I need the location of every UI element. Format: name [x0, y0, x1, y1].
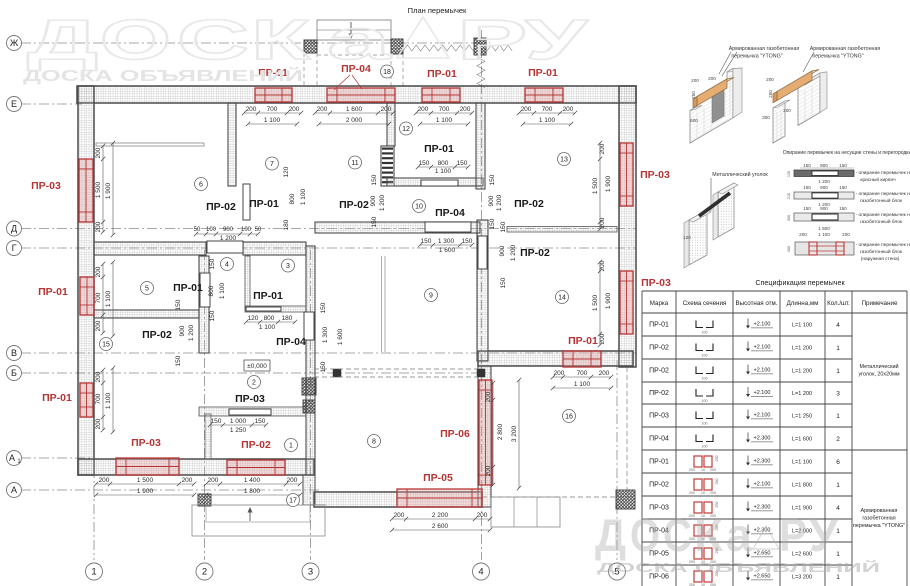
svg-text:1: 1: [289, 443, 293, 450]
room circle 15: [100, 338, 113, 351]
svg-text:1: 1: [836, 368, 840, 375]
svg-text:800: 800: [438, 160, 449, 167]
svg-text:150: 150: [175, 355, 182, 366]
svg-text:1: 1: [91, 567, 96, 578]
svg-text:200: 200: [554, 370, 565, 377]
svg-text:16: 16: [565, 414, 573, 421]
svg-text:10: 10: [701, 491, 705, 495]
svg-text:50: 50: [194, 227, 201, 233]
wall rooms 5/15: [94, 310, 199, 318]
bearing scheme 3: [794, 213, 854, 221]
svg-text:100: 100: [702, 399, 708, 403]
svg-text:2: 2: [252, 380, 256, 387]
svg-text:±0,000: ±0,000: [247, 363, 267, 370]
red lintel PR-01 left wall b: [80, 383, 93, 417]
svg-text:1 600: 1 600: [346, 106, 363, 113]
dashed beam over room 8: [314, 368, 478, 370]
pier wall2/9 a: [302, 378, 316, 395]
svg-text:1 100: 1 100: [264, 117, 281, 124]
svg-text:1 300: 1 300: [438, 238, 455, 245]
svg-text:1 600: 1 600: [337, 328, 344, 345]
room circle 3: [282, 259, 295, 272]
svg-text:О: О: [630, 509, 660, 561]
room circle 4: [221, 258, 234, 271]
svg-text:1 100: 1 100: [574, 381, 591, 388]
svg-text:1: 1: [836, 413, 840, 420]
svg-text:800: 800: [289, 193, 296, 204]
svg-text:ПР-01: ПР-01: [249, 198, 279, 210]
red lintel PR-03 right wall a: [620, 143, 633, 206]
svg-text:700: 700: [577, 370, 588, 377]
axis A horizontal: [21, 489, 320, 491]
svg-text:Высотная отм.: Высотная отм.: [736, 300, 778, 307]
red lintel PR-06 vertical: [479, 380, 492, 485]
axis B horizontal: [21, 372, 490, 374]
svg-text:1 400: 1 400: [244, 477, 261, 484]
svg-text:1 100: 1 100: [436, 117, 453, 124]
svg-text:900: 900: [179, 325, 186, 336]
svg-text:600: 600: [690, 118, 698, 123]
svg-text:150: 150: [371, 216, 378, 227]
svg-text:1 200: 1 200: [496, 194, 503, 211]
svg-text:1 500: 1 500: [592, 177, 599, 194]
room circle 5: [141, 282, 154, 295]
svg-text:1 000: 1 000: [230, 418, 247, 425]
svg-text:150: 150: [419, 160, 430, 167]
axis circle 3: [302, 563, 319, 580]
svg-text:ПР-01: ПР-01: [427, 68, 457, 80]
svg-text:900: 900: [820, 185, 828, 190]
svg-text:ПР-04: ПР-04: [435, 207, 465, 219]
svg-text:К: К: [694, 509, 724, 561]
axis circle 4: [473, 563, 490, 580]
svg-text:С: С: [663, 509, 692, 561]
svg-text:красный кирпич: красный кирпич: [860, 176, 896, 183]
room circle 18: [381, 65, 394, 78]
svg-text:10: 10: [415, 204, 423, 211]
svg-text:ПР-01: ПР-01: [649, 459, 669, 466]
svg-text:150: 150: [803, 163, 811, 168]
dimensions bottom-left: [96, 483, 194, 485]
room circle 1: [285, 439, 298, 452]
svg-text:1 800: 1 800: [244, 488, 261, 495]
svg-text:200: 200: [289, 106, 300, 113]
svg-text:ПР-05: ПР-05: [423, 472, 453, 484]
lintel door G wall: [207, 241, 243, 253]
pier top-3: [474, 38, 486, 55]
svg-text:+2.100: +2.100: [754, 345, 771, 351]
axis circle G: [7, 241, 22, 256]
svg-text:1 100: 1 100: [435, 168, 452, 175]
svg-text:200: 200: [394, 512, 405, 519]
svg-text:100: 100: [702, 354, 708, 358]
svg-text:200: 200: [208, 477, 219, 484]
bearing scheme 2: [794, 192, 854, 199]
svg-text:120: 120: [283, 166, 290, 177]
svg-text:250: 250: [691, 91, 696, 99]
room circle 10: [413, 200, 426, 213]
wall bottom-center (A): [314, 492, 482, 507]
watermark bottom big: [595, 509, 839, 561]
lintel near PR-04 label: [304, 312, 314, 340]
red lintel PR-01 top c: [525, 88, 563, 102]
axis D horizontal: [21, 228, 636, 230]
svg-text:1 500: 1 500: [818, 226, 830, 231]
insulation zigzag vertical: [477, 57, 485, 88]
svg-text:1 200: 1 200: [220, 235, 237, 242]
svg-text:100: 100: [702, 445, 708, 449]
dimensions bottom-center: [392, 518, 490, 520]
metal angle detail walls: [689, 210, 707, 265]
svg-text:250: 250: [715, 502, 719, 508]
red lintel PR-01 room14: [563, 351, 601, 367]
pier terrace corner: [616, 490, 635, 509]
lintel door room3: [246, 307, 281, 311]
room circle 9: [425, 289, 438, 302]
svg-text:150: 150: [320, 361, 327, 372]
svg-text:уголок, 20х20мм: уголок, 20х20мм: [858, 372, 899, 378]
svg-text:2: 2: [836, 436, 840, 443]
svg-text:1 500: 1 500: [95, 181, 102, 198]
svg-text:- опирание перемычек на: - опирание перемычек на: [856, 213, 910, 218]
svg-text:1 900: 1 900: [137, 488, 154, 495]
svg-text:200: 200: [287, 477, 298, 484]
svg-text:10: 10: [701, 468, 705, 472]
terrace dashed edge horizontal: [482, 496, 633, 498]
svg-text:300: 300: [787, 215, 791, 221]
room circle 12: [400, 122, 413, 135]
lintel door room1: [229, 409, 271, 415]
axis 3 vertical: [310, 250, 312, 560]
red lintel PR-04 top: [327, 88, 395, 102]
svg-text:перемычка "YTONG": перемычка "YTONG": [812, 54, 863, 60]
svg-text:а: а: [726, 509, 752, 561]
lintel door room5: [200, 273, 210, 307]
svg-text:Кол./шт.: Кол./шт.: [827, 300, 850, 307]
svg-text:1 100: 1 100: [219, 282, 226, 299]
svg-text:Примечание: Примечание: [862, 300, 898, 307]
svg-text:6: 6: [836, 459, 840, 466]
room 6 inner ledge: [96, 143, 204, 146]
porch arrow: [350, 22, 352, 37]
svg-text:200: 200: [842, 232, 850, 237]
svg-text:250: 250: [715, 479, 719, 485]
wall bottom-left (A1): [78, 459, 314, 475]
svg-text:ПР-03: ПР-03: [131, 437, 161, 449]
svg-text:L=1 200: L=1 200: [792, 369, 812, 375]
spec table grid: [642, 290, 907, 292]
svg-text:200: 200: [710, 491, 716, 495]
axis circle 1: [86, 563, 103, 580]
svg-text:4: 4: [478, 567, 483, 578]
svg-text:ПР-03: ПР-03: [235, 393, 265, 405]
svg-text:200: 200: [95, 418, 102, 429]
svg-text:- опирание перемычек на: - опирание перемычек на: [856, 192, 910, 197]
svg-text:150: 150: [371, 174, 378, 185]
svg-text:11: 11: [351, 160, 358, 167]
svg-text:120: 120: [683, 235, 691, 240]
svg-text:L=1 250: L=1 250: [792, 414, 812, 420]
svg-text:200: 200: [708, 76, 716, 81]
svg-text:+2.300: +2.300: [754, 459, 771, 465]
watermark top big: [27, 7, 589, 72]
svg-text:8: 8: [372, 439, 376, 446]
wall D middle: [315, 222, 480, 233]
svg-text:800: 800: [208, 285, 215, 296]
svg-text:Р: Р: [779, 509, 807, 561]
svg-text:150: 150: [489, 218, 496, 229]
red lintel PR-03 left wall: [79, 159, 93, 222]
zero level mark: [244, 360, 270, 371]
svg-text:1 200: 1 200: [188, 324, 195, 341]
lintel door rooms9/14: [478, 236, 487, 269]
svg-text:200: 200: [460, 106, 471, 113]
room circle 14: [556, 291, 569, 304]
svg-text:Д: Д: [595, 509, 626, 561]
chimney flue block: [381, 146, 394, 186]
svg-text:а: а: [327, 8, 392, 72]
svg-text:50: 50: [255, 227, 262, 233]
svg-text:900: 900: [499, 245, 506, 256]
axis circle B: [7, 366, 22, 381]
wall G left b: [243, 242, 306, 255]
dashed pier connectors: [303, 53, 305, 86]
pier B axis left: [333, 369, 341, 377]
svg-text:200: 200: [689, 491, 695, 495]
svg-text:150: 150: [839, 185, 847, 190]
svg-text:200: 200: [599, 370, 610, 377]
wall D right: [507, 227, 617, 233]
svg-text:200: 200: [689, 468, 695, 472]
svg-text:ПР-01: ПР-01: [173, 282, 203, 294]
svg-text:3: 3: [286, 263, 290, 270]
svg-text:Схема сечения: Схема сечения: [683, 300, 727, 307]
svg-text:ПР-06: ПР-06: [440, 428, 470, 440]
wall right exterior: [619, 86, 636, 367]
svg-text:L=1 100: L=1 100: [792, 460, 812, 466]
svg-text:1 100: 1 100: [105, 290, 112, 307]
wall top exterior: [77, 86, 636, 103]
axis E horizontal: [21, 103, 82, 105]
svg-text:газобетонная: газобетонная: [862, 516, 895, 522]
svg-text:+2.650: +2.650: [754, 551, 771, 557]
svg-text:200: 200: [95, 266, 102, 277]
terrace dashed edge vertical: [626, 367, 628, 497]
room circle 7: [266, 157, 279, 170]
svg-text:6: 6: [199, 182, 203, 189]
YTONG detail 2 wall: [773, 101, 785, 143]
svg-text:150: 150: [175, 299, 182, 310]
axis circle A: [7, 483, 22, 498]
axis circle Zh: [7, 36, 22, 51]
svg-text:ПР-04: ПР-04: [276, 336, 306, 348]
axis 5 vertical: [616, 360, 618, 560]
wall rooms 9/14 vertical: [477, 220, 488, 361]
svg-text:150: 150: [803, 185, 811, 190]
svg-text:1 100: 1 100: [259, 324, 276, 331]
lintel door rooms6/7: [243, 184, 250, 220]
svg-text:газобетонный блок: газобетонный блок: [860, 248, 903, 255]
svg-text:180: 180: [283, 219, 290, 230]
axis 4 vertical: [481, 30, 483, 560]
svg-text:ПР-02: ПР-02: [649, 482, 669, 489]
svg-text:+2.100: +2.100: [754, 482, 771, 488]
svg-text:5: 5: [145, 286, 149, 293]
top porch outline: [317, 20, 391, 40]
svg-text:400: 400: [787, 246, 791, 252]
metal angle bar: [699, 193, 730, 216]
svg-text:ПР-04: ПР-04: [649, 436, 669, 443]
YTONG lintel beam 2: [777, 70, 819, 92]
svg-text:ПР-02: ПР-02: [520, 247, 550, 259]
svg-text:Опирание перемычек на несущие: Опирание перемычек на несущие стены и пе…: [783, 150, 910, 156]
axis A1 horizontal: [21, 457, 90, 459]
red lintel PR-02 bottom: [227, 460, 285, 475]
svg-text:150: 150: [839, 206, 847, 211]
bottom entrance porch: [192, 505, 325, 536]
partition room 3 bottom: [245, 306, 306, 312]
svg-text:14: 14: [558, 295, 566, 302]
svg-text:ПР-02: ПР-02: [514, 198, 544, 210]
svg-text:У: У: [809, 509, 839, 561]
svg-text:ПР-03: ПР-03: [649, 413, 669, 420]
svg-text:1 500: 1 500: [137, 477, 154, 484]
steps right of PR-05: [491, 497, 560, 527]
wall G left a: [94, 242, 206, 255]
svg-text:150: 150: [489, 174, 496, 185]
svg-text:(наружная стена): (наружная стена): [861, 256, 900, 262]
svg-text:150: 150: [500, 221, 507, 232]
svg-text:ПР-02: ПР-02: [206, 201, 236, 213]
room circle 8: [368, 435, 381, 448]
svg-text:+2.100: +2.100: [754, 322, 771, 328]
axis 1 vertical: [93, 108, 95, 560]
axis G horizontal: [21, 247, 636, 249]
svg-text:200: 200: [521, 106, 532, 113]
axis 2 vertical: [204, 250, 206, 560]
svg-text:L=3 200: L=3 200: [792, 575, 812, 581]
svg-text:180: 180: [282, 315, 293, 322]
svg-text:900: 900: [223, 227, 234, 233]
svg-text:L=1 600: L=1 600: [792, 437, 812, 443]
svg-text:3 200: 3 200: [511, 425, 518, 442]
svg-text:700: 700: [95, 292, 102, 303]
svg-text:900: 900: [488, 195, 495, 206]
svg-text:Е: Е: [11, 99, 17, 109]
svg-text:Ж: Ж: [10, 38, 19, 48]
svg-text:Г: Г: [12, 243, 17, 253]
room circle 16: [563, 410, 576, 423]
svg-text:+2.300: +2.300: [754, 505, 771, 511]
svg-text:3: 3: [308, 567, 313, 578]
svg-text:А: А: [11, 485, 17, 495]
svg-text:200: 200: [182, 477, 193, 484]
svg-text:1 200: 1 200: [379, 194, 386, 211]
wall rooms 11/12: [387, 103, 395, 146]
svg-text:700: 700: [267, 106, 278, 113]
svg-text:ПР-02: ПР-02: [649, 390, 669, 397]
svg-text:700: 700: [95, 393, 102, 404]
wall rooms 13/10: [476, 103, 485, 189]
YTONG detail 1 wall: [690, 69, 733, 143]
wall rooms 12/10: [387, 178, 483, 186]
svg-text:1 100: 1 100: [105, 392, 112, 409]
bearing scheme 1 (brick): [794, 170, 854, 177]
room circle 17: [287, 494, 300, 507]
svg-text:9: 9: [429, 293, 433, 300]
svg-text:100: 100: [702, 331, 708, 335]
pier B axis right: [477, 369, 485, 377]
svg-text:1 100: 1 100: [539, 117, 556, 124]
svg-text:ПР-02: ПР-02: [649, 368, 669, 375]
svg-text:1 900: 1 900: [605, 292, 612, 309]
svg-text:700: 700: [542, 106, 553, 113]
svg-text:200: 200: [95, 371, 102, 382]
partition room 1 top: [199, 407, 306, 416]
svg-text:перемычка "YTONG": перемычка "YTONG": [731, 54, 782, 60]
svg-text:100: 100: [702, 422, 708, 426]
svg-text:200: 200: [317, 106, 328, 113]
dimensions top wall: [244, 112, 301, 114]
svg-text:200: 200: [563, 106, 574, 113]
svg-text:1 600: 1 600: [439, 247, 456, 254]
svg-text:Д: Д: [11, 224, 17, 234]
svg-text:900: 900: [820, 163, 828, 168]
svg-text:150: 150: [803, 206, 811, 211]
svg-text:1 200: 1 200: [510, 244, 517, 261]
insulation zigzag horizontal: [403, 45, 473, 51]
svg-text:Металлический уголок: Металлический уголок: [712, 171, 768, 178]
svg-text:Д: Д: [27, 8, 98, 72]
svg-text:С: С: [177, 8, 249, 72]
svg-text:17: 17: [289, 498, 297, 505]
svg-text:ПР-03: ПР-03: [641, 277, 671, 289]
svg-text:- опирание перемычек на: - опирание перемычек на: [856, 243, 910, 248]
axis V horizontal: [21, 352, 636, 354]
svg-text:200: 200: [485, 465, 492, 476]
wall left exterior: [78, 86, 94, 475]
svg-text:200: 200: [710, 468, 716, 472]
pier top-2: [391, 39, 403, 54]
svg-text:12: 12: [402, 126, 410, 133]
svg-text:2 000: 2 000: [346, 117, 363, 124]
svg-text:900: 900: [370, 195, 377, 206]
pier wall2/9 b: [303, 400, 315, 413]
svg-text:L=1 100: L=1 100: [792, 323, 812, 329]
svg-text:200: 200: [95, 147, 102, 158]
red lintel PR-01 left wall a: [80, 277, 94, 315]
wall rooms 2/9 vertical: [306, 246, 315, 475]
svg-text:Спецификация перемычек: Спецификация перемычек: [755, 278, 845, 287]
svg-text:А: А: [9, 453, 15, 463]
svg-text:- опирание перемычек на: - опирание перемычек на: [856, 171, 910, 176]
svg-text:ПР-01: ПР-01: [38, 286, 68, 298]
svg-text:L=1 800: L=1 800: [792, 483, 812, 489]
svg-text:100: 100: [241, 227, 252, 233]
room circle 6: [195, 178, 208, 191]
svg-text:2 600: 2 600: [432, 523, 449, 530]
svg-text:250: 250: [715, 456, 719, 462]
red lintel PR-05 bottom: [397, 489, 482, 507]
svg-text:2 800: 2 800: [497, 423, 504, 440]
svg-text:1 200: 1 200: [818, 179, 830, 184]
svg-text:200: 200: [691, 78, 699, 83]
axis circle 5: [609, 563, 626, 580]
wall rooms 8/16 vertical: [478, 366, 491, 507]
svg-text:210: 210: [787, 193, 791, 199]
svg-text:Длинна,мм: Длинна,мм: [787, 300, 819, 307]
svg-text:+2.300: +2.300: [754, 436, 771, 442]
